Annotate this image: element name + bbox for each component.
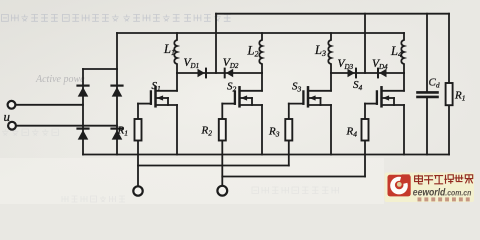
svg-text:Active powe: Active powe xyxy=(35,74,85,85)
svg-text:eeworld.com.cn: eeworld.com.cn xyxy=(413,187,472,198)
svg-text:u: u xyxy=(4,109,11,124)
